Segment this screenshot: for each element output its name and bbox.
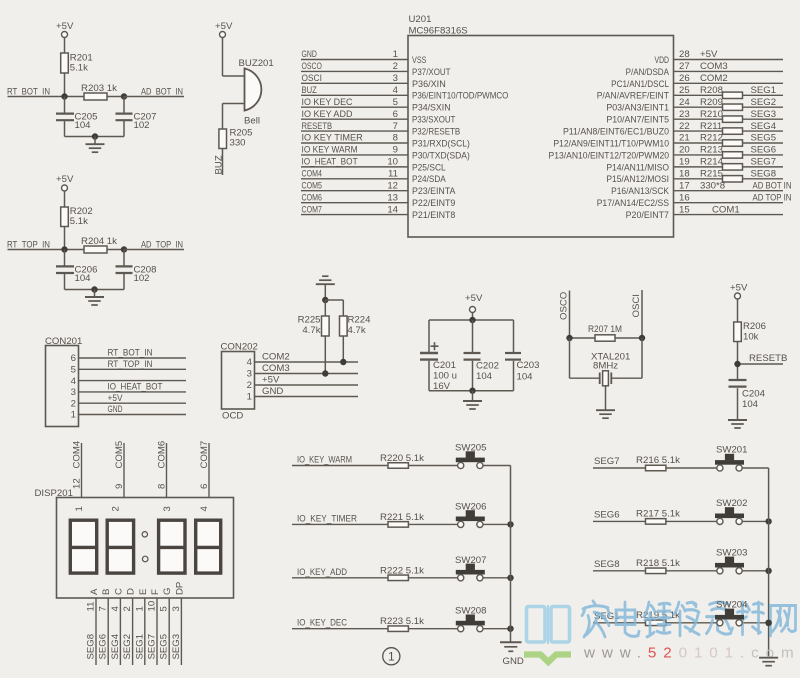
- svg-text:SEG8: SEG8: [594, 559, 620, 570]
- svg-text:7: 7: [393, 121, 398, 132]
- svg-text:B: B: [101, 589, 112, 595]
- svg-text:SEG8: SEG8: [86, 634, 97, 660]
- svg-text:BUZ: BUZ: [214, 155, 225, 174]
- net OSCO stub: [559, 291, 570, 339]
- ground (reset): [728, 420, 747, 428]
- svg-text:SEG6: SEG6: [751, 145, 777, 156]
- svg-text:F: F: [150, 589, 161, 595]
- svg-text:8: 8: [157, 484, 168, 489]
- IC pin 11 COM4: [301, 169, 446, 186]
- svg-text:1: 1: [71, 410, 76, 421]
- svg-text:5.1k: 5.1k: [70, 216, 88, 227]
- svg-text:G: G: [162, 588, 173, 595]
- svg-text:12: 12: [72, 478, 83, 489]
- svg-text:OSCO: OSCO: [559, 292, 570, 320]
- svg-text:A: A: [89, 588, 100, 595]
- svg-text:SEG6: SEG6: [98, 634, 109, 660]
- resistor R205 330: [219, 128, 253, 149]
- wire R202 to node RT_TOP_IN: [64, 227, 66, 250]
- svg-text:P30/TXD(SDA): P30/TXD(SDA): [412, 150, 470, 161]
- svg-text:OCD: OCD: [222, 411, 243, 422]
- resistor R224 4.7k: [340, 300, 372, 362]
- ground (caps): [463, 391, 482, 409]
- wire seg bus: [768, 468, 770, 657]
- DISP201 pin 6 COM7: [199, 441, 210, 498]
- svg-text:18: 18: [679, 169, 690, 180]
- svg-text:SEG3: SEG3: [171, 634, 182, 660]
- watermark url: [583, 645, 800, 662]
- capacitor C206 104: [56, 250, 97, 290]
- IC pin 22 R211: [563, 121, 783, 138]
- svg-text:10: 10: [387, 157, 398, 168]
- svg-text:104: 104: [742, 399, 759, 410]
- node key bus 1: [507, 521, 513, 527]
- svg-text:5: 5: [393, 97, 398, 108]
- svg-text:28: 28: [679, 49, 690, 60]
- CON202 pin 3 COM3: [247, 363, 358, 380]
- resistor R225 4.7k: [298, 300, 330, 374]
- svg-text:SEG2: SEG2: [751, 97, 777, 108]
- node R224-COM2: [340, 359, 346, 365]
- svg-text:R206: R206: [743, 321, 766, 332]
- svg-text:12: 12: [387, 180, 398, 191]
- svg-text:10k: 10k: [743, 332, 759, 343]
- svg-text:13: 13: [387, 192, 398, 203]
- node seg bus 3: [765, 620, 771, 626]
- seg key row SEG6 resistor R217: [593, 508, 720, 524]
- svg-text:Bell: Bell: [244, 116, 260, 127]
- DISP201 pin 12 COM4: [72, 440, 83, 497]
- svg-text:AD BOT IN: AD BOT IN: [753, 180, 792, 191]
- svg-text:C203: C203: [517, 360, 540, 371]
- svg-text:VDD: VDD: [655, 55, 670, 66]
- svg-text:5: 5: [71, 365, 76, 376]
- IC pin 24 R209: [606, 97, 783, 114]
- svg-text:SEG3: SEG3: [751, 109, 777, 120]
- power +5V (RT_BOT): [56, 21, 74, 38]
- IC pin 10 IO_HEAT_BOT: [301, 157, 446, 174]
- IC pin 25 R208: [597, 85, 783, 102]
- svg-text:+5V: +5V: [56, 174, 74, 185]
- svg-text:P10/AN7/EINT5: P10/AN7/EINT5: [606, 115, 669, 126]
- switch SW207: [455, 555, 511, 581]
- svg-text:R217 5.1k: R217 5.1k: [636, 508, 680, 519]
- svg-text:C201: C201: [433, 360, 456, 371]
- sheet number circle 1: [383, 648, 400, 665]
- resistor R207 1M: [570, 324, 643, 341]
- wire key bus: [510, 466, 512, 642]
- IC pin 18 R215: [606, 169, 783, 186]
- svg-text:OSCO: OSCO: [302, 61, 322, 72]
- seg key row SEG8 resistor R218: [593, 558, 720, 574]
- node ground junction 2: [91, 286, 97, 292]
- DISP201 pin 5 SEG5: [159, 588, 174, 665]
- switch SW202: [715, 498, 769, 525]
- IC pin 15 COM1: [626, 204, 783, 221]
- power +5V (reset): [730, 283, 748, 323]
- svg-text:C: C: [113, 588, 124, 595]
- svg-text:OSCI: OSCI: [302, 73, 322, 84]
- node seg bus 1: [765, 518, 771, 524]
- resistor R206 10k: [734, 321, 766, 379]
- CON201 pin 2 +5V: [71, 393, 186, 410]
- svg-text:2: 2: [111, 506, 122, 511]
- wire cap top rail: [429, 319, 514, 321]
- svg-text:11: 11: [86, 602, 97, 612]
- capacitor C207 102: [116, 97, 157, 137]
- svg-text:14: 14: [387, 204, 398, 215]
- svg-text:21: 21: [679, 133, 690, 144]
- DISP digit 4: [195, 506, 222, 574]
- svg-text:3: 3: [247, 369, 252, 380]
- svg-text:P32/RESETB: P32/RESETB: [412, 126, 460, 137]
- svg-text:1: 1: [74, 506, 85, 511]
- svg-text:R209: R209: [700, 97, 723, 108]
- svg-text:+5V: +5V: [700, 49, 718, 60]
- svg-text:P23/EINTA: P23/EINTA: [412, 186, 456, 197]
- svg-text:2: 2: [247, 380, 252, 391]
- IC pin 23 R210: [606, 109, 783, 126]
- IC pin 19 R214: [606, 157, 783, 174]
- svg-text:VSS: VSS: [412, 55, 426, 66]
- CON201 pin 4: [71, 376, 186, 387]
- svg-text:P36/EINT10/TOD/PWMCO: P36/EINT10/TOD/PWMCO: [412, 91, 508, 102]
- svg-text:RESETB: RESETB: [749, 353, 787, 364]
- ground (seg keys): [759, 658, 778, 666]
- key row IO_KEY_WARM resistor R220: [292, 453, 458, 468]
- wire R203 to AD_BOT node: [107, 96, 124, 98]
- svg-text:2: 2: [122, 606, 133, 611]
- display DISP201: [35, 488, 234, 598]
- svg-text:IO KEY WARM: IO KEY WARM: [302, 145, 358, 156]
- svg-text:16: 16: [679, 192, 690, 203]
- svg-text:IO KEY TIMER: IO KEY TIMER: [302, 133, 363, 144]
- svg-text:P33/SXOUT: P33/SXOUT: [412, 115, 455, 126]
- IC pin 5 IO KEY DEC: [301, 97, 451, 114]
- key row IO_KEY_TIMER resistor R221: [292, 512, 458, 527]
- wire cap bottom rail: [429, 390, 514, 392]
- wire R201 to node RT_BOT_IN: [64, 73, 66, 97]
- DISP201 pin 8 COM6: [157, 441, 168, 498]
- node osci junction: [639, 335, 645, 341]
- IC pin 2 OSCO: [301, 61, 451, 78]
- node ground junction: [92, 133, 98, 139]
- svg-text:SEG7: SEG7: [594, 456, 620, 467]
- svg-text:P17/AN14/EC2/SS: P17/AN14/EC2/SS: [597, 198, 669, 209]
- svg-text:+5V: +5V: [56, 21, 74, 32]
- svg-text:IO_HEAT_BOT: IO_HEAT_BOT: [302, 157, 358, 168]
- buzzer BUZ201 Bell: [239, 58, 274, 127]
- net RT_TOP_IN: [7, 240, 84, 251]
- DISP201 pin 7 SEG6: [98, 589, 113, 665]
- svg-text:330: 330: [230, 138, 246, 149]
- wire R204 to AD_TOP node: [107, 249, 124, 251]
- svg-text:www.520101.com: www.520101.com: [583, 645, 800, 662]
- svg-text:COM7: COM7: [199, 441, 210, 469]
- IC pin 1 GND: [301, 49, 426, 66]
- watermark chinese characters: [582, 601, 796, 637]
- svg-text:20: 20: [679, 145, 690, 156]
- svg-text:27: 27: [679, 61, 690, 72]
- svg-text:P14/AN11/MISO: P14/AN11/MISO: [606, 162, 669, 173]
- svg-text:GND: GND: [302, 49, 317, 60]
- node pullup junction: [322, 297, 343, 303]
- svg-text:4: 4: [110, 606, 121, 612]
- svg-text:26: 26: [679, 73, 690, 84]
- node seg bus 2: [765, 568, 771, 574]
- svg-text:4: 4: [247, 357, 253, 368]
- svg-text:COM5: COM5: [114, 441, 125, 469]
- node cap gnd junction: [469, 388, 475, 394]
- svg-text:R213: R213: [700, 145, 723, 156]
- svg-text:7: 7: [98, 606, 109, 611]
- net OSCI stub: [631, 290, 642, 338]
- svg-text:2: 2: [393, 61, 398, 72]
- svg-text:RT_TOP_IN: RT_TOP_IN: [108, 359, 153, 370]
- switch SW206: [455, 501, 511, 527]
- svg-text:IO KEY DEC: IO KEY DEC: [302, 97, 353, 108]
- wire SW204 row: [742, 622, 768, 624]
- node AD_BOT junction: [121, 93, 127, 99]
- svg-text:R215: R215: [700, 169, 723, 180]
- svg-text:P/AN/AVREF/EINT: P/AN/AVREF/EINT: [597, 91, 669, 102]
- capacitor C205 104: [56, 97, 97, 137]
- svg-text:R218 5.1k: R218 5.1k: [636, 558, 680, 569]
- svg-text:4: 4: [199, 506, 210, 512]
- node RT_TOP junction: [61, 246, 67, 252]
- svg-text:IO_KEY_DEC: IO_KEY_DEC: [297, 618, 347, 629]
- DISP201 pin 11 SEG8: [86, 588, 101, 665]
- svg-text:R214: R214: [700, 157, 724, 168]
- svg-text:104: 104: [476, 371, 493, 382]
- resistor R201 5.1k: [61, 53, 93, 74]
- power +5V (RT_TOP): [56, 174, 74, 191]
- svg-text:23: 23: [679, 109, 690, 120]
- svg-text:1: 1: [247, 392, 252, 403]
- CON201 pin 5 RT_TOP_IN: [71, 359, 186, 376]
- svg-text:R211: R211: [700, 121, 722, 132]
- node cap rail junction: [469, 317, 475, 323]
- svg-text:4.7k: 4.7k: [302, 325, 320, 336]
- svg-text:COM4: COM4: [72, 440, 83, 468]
- svg-text:3: 3: [162, 506, 173, 511]
- svg-text:15: 15: [679, 204, 690, 215]
- svg-text:COM2: COM2: [262, 352, 290, 363]
- svg-text:P22/EINT9: P22/EINT9: [412, 198, 455, 209]
- switch SW201: [715, 445, 769, 472]
- wire +5V to R202: [64, 191, 66, 207]
- IC pin 26 COM2: [611, 73, 783, 90]
- svg-text:DP: DP: [174, 582, 185, 595]
- svg-text:4.7k: 4.7k: [348, 325, 366, 336]
- svg-text:8: 8: [393, 133, 398, 144]
- net AD_TOP_IN: [124, 240, 184, 251]
- svg-text:102: 102: [134, 120, 150, 131]
- svg-text:6: 6: [393, 109, 398, 120]
- svg-text:GND: GND: [108, 404, 123, 415]
- node AD_TOP junction: [121, 246, 127, 252]
- CON201 pin 6 RT_BOT_IN: [71, 348, 186, 365]
- connector CON202: [221, 342, 258, 422]
- IC pin 28 +5V: [655, 49, 783, 66]
- capacitor C208 102: [116, 250, 157, 290]
- svg-text:1: 1: [134, 606, 145, 611]
- DISP201 pin 10 SEG7: [147, 589, 162, 665]
- svg-text:IO KEY ADD: IO KEY ADD: [302, 109, 353, 120]
- svg-text:104: 104: [517, 372, 534, 383]
- IC pin 9 IO KEY WARM: [301, 145, 470, 162]
- power +5V (caps): [465, 293, 483, 320]
- svg-text:4: 4: [71, 376, 77, 387]
- IC pin 13 COM6: [301, 192, 455, 209]
- IC pin 17 330*8: [611, 180, 791, 197]
- crystal XTAL201 8MHz: [570, 338, 643, 386]
- node osco junction: [566, 335, 572, 341]
- svg-text:IO_KEY_ADD: IO_KEY_ADD: [297, 567, 347, 578]
- key row IO_KEY_ADD resistor R222: [292, 565, 458, 580]
- svg-text:P16/AN13/SCK: P16/AN13/SCK: [611, 186, 669, 197]
- svg-text:P12/AN9/EINT11/T10/PWM10: P12/AN9/EINT11/T10/PWM10: [553, 138, 669, 149]
- capacitor C202 104: [464, 320, 499, 391]
- svg-text:COM4: COM4: [302, 169, 323, 180]
- capacitor C201 100u 16V: [420, 320, 457, 392]
- svg-text:BUZ: BUZ: [302, 85, 317, 96]
- svg-text:3: 3: [71, 387, 76, 398]
- svg-text:D: D: [126, 588, 137, 595]
- svg-text:1: 1: [393, 49, 398, 60]
- ground (keys) GND: [500, 642, 524, 667]
- power +5V (buzzer): [215, 21, 233, 38]
- svg-text:330*8: 330*8: [700, 180, 725, 191]
- svg-text:9: 9: [393, 145, 398, 156]
- svg-text:+5V: +5V: [215, 21, 233, 32]
- svg-text:BUZ201: BUZ201: [239, 58, 274, 69]
- node R225-COM3: [322, 370, 328, 376]
- svg-text:IO_HEAT_BOT: IO_HEAT_BOT: [108, 382, 163, 393]
- svg-text:COM3: COM3: [700, 61, 728, 72]
- IC pin 3 OSCI: [301, 73, 446, 90]
- svg-text:GND: GND: [262, 386, 283, 397]
- net RT_BOT_IN: [7, 87, 84, 98]
- CON202 pin 4 COM2: [247, 352, 358, 369]
- IC pin 8 IO KEY TIMER: [301, 133, 470, 150]
- svg-text:SEG7: SEG7: [751, 157, 777, 168]
- svg-text:GND: GND: [503, 656, 524, 667]
- wire +5V to buzzer: [223, 38, 245, 77]
- switch SW204: [715, 600, 748, 626]
- IC pin 16 AD TOP IN: [597, 192, 792, 209]
- svg-text:COM7: COM7: [302, 204, 322, 215]
- svg-text:R225: R225: [298, 315, 321, 326]
- capacitor C204 104: [729, 380, 766, 420]
- IC pin 12 COM5: [301, 180, 456, 197]
- svg-text:9: 9: [114, 484, 125, 489]
- CON201 pin 1 GND: [71, 404, 186, 421]
- svg-text:R216 5.1k: R216 5.1k: [636, 455, 680, 466]
- DISP201 pin 1 SEG1: [134, 589, 149, 665]
- IC pin 6 IO KEY ADD: [301, 109, 455, 126]
- svg-text:COM1: COM1: [712, 204, 740, 215]
- svg-text:RT_BOT_IN: RT_BOT_IN: [108, 348, 153, 359]
- svg-text:COM6: COM6: [302, 192, 322, 203]
- svg-text:OSCI: OSCI: [631, 294, 642, 317]
- svg-text:SEG8: SEG8: [751, 169, 777, 180]
- wire +5V to R201: [64, 38, 66, 54]
- IC pin 14 COM7: [301, 204, 455, 221]
- svg-text:+5V: +5V: [465, 293, 483, 304]
- resistor R204 1k: [81, 236, 117, 253]
- ground (crystal): [596, 386, 615, 418]
- svg-text:2: 2: [71, 398, 76, 409]
- svg-text:102: 102: [134, 273, 150, 284]
- net BUZ stub: [214, 149, 225, 176]
- svg-text:AD TOP IN: AD TOP IN: [753, 192, 792, 203]
- DISP201 pin 3 SEG3: [171, 582, 186, 665]
- svg-text:PC1/AN1/DSCL: PC1/AN1/DSCL: [611, 79, 669, 90]
- svg-text:R210: R210: [700, 109, 723, 120]
- connector CON201: [45, 336, 82, 427]
- svg-text:P37/XOUT: P37/XOUT: [412, 67, 451, 78]
- svg-text:22: 22: [679, 121, 690, 132]
- watermark logo book: [524, 605, 571, 662]
- svg-text:10: 10: [147, 601, 158, 612]
- svg-text:3: 3: [171, 606, 182, 611]
- node RT_BOT junction: [61, 93, 67, 99]
- svg-text:COM6: COM6: [157, 441, 168, 469]
- svg-text:5: 5: [159, 606, 170, 611]
- svg-text:P20/EINT7: P20/EINT7: [626, 210, 669, 221]
- svg-text:25: 25: [679, 85, 690, 96]
- node key bus 2: [507, 575, 513, 581]
- wire cap commons 2: [65, 289, 125, 291]
- svg-text:R208: R208: [700, 85, 723, 96]
- switch SW205: [455, 443, 511, 469]
- svg-text:P11/AN8/EINT6/EC1/BUZ0: P11/AN8/EINT6/EC1/BUZ0: [563, 126, 669, 137]
- net RESETB: [738, 353, 788, 364]
- DISP digit 3: [157, 506, 186, 573]
- svg-text:P34/SXIN: P34/SXIN: [412, 103, 451, 114]
- ground (RT_BOT): [86, 137, 105, 153]
- svg-text:3: 3: [393, 73, 398, 84]
- switch SW203: [715, 547, 769, 574]
- svg-text:IO_KEY_WARM: IO_KEY_WARM: [297, 455, 352, 466]
- svg-text:COM5: COM5: [302, 180, 322, 191]
- svg-text:R212: R212: [700, 133, 723, 144]
- IC pin 7 RESETB: [301, 121, 460, 138]
- svg-text:SEG5: SEG5: [159, 634, 170, 660]
- svg-text:SEG2: SEG2: [122, 634, 133, 660]
- svg-text:SEG5: SEG5: [751, 133, 777, 144]
- svg-text:R207 1M: R207 1M: [588, 324, 622, 335]
- svg-text:+5V: +5V: [108, 393, 124, 404]
- svg-text:P25/SCL: P25/SCL: [412, 162, 446, 173]
- svg-text:P13/AN10/EINT12/T20/PWM20: P13/AN10/EINT12/T20/PWM20: [549, 150, 670, 161]
- svg-text:C204: C204: [742, 389, 766, 400]
- resistor R202 5.1k: [61, 206, 93, 227]
- svg-text:R224: R224: [348, 315, 372, 326]
- IC pin 4 BUZ: [301, 85, 508, 102]
- svg-text:+5V: +5V: [730, 283, 748, 294]
- svg-text:P03/AN3/EINT1: P03/AN3/EINT1: [606, 103, 669, 114]
- svg-text:P15/AN12/MOSI: P15/AN12/MOSI: [606, 174, 669, 185]
- svg-text:COM3: COM3: [262, 363, 290, 374]
- svg-text:1: 1: [388, 650, 395, 664]
- svg-text:11: 11: [388, 169, 398, 180]
- resistor R203 1k: [81, 83, 117, 100]
- svg-text:6: 6: [199, 484, 210, 489]
- svg-text:RESETB: RESETB: [302, 121, 333, 132]
- switch SW208: [455, 606, 511, 632]
